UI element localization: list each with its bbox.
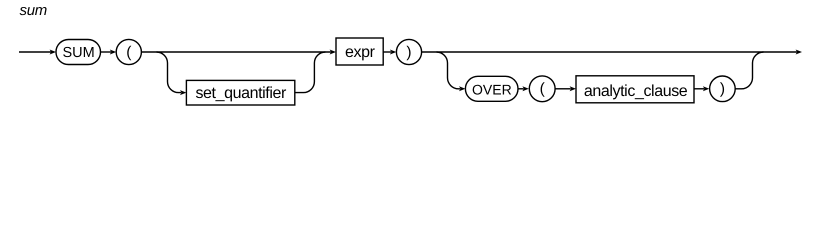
terminal ) 2 bbox=[710, 76, 736, 102]
svg-text:): ) bbox=[406, 44, 411, 61]
wire ( to analytic_clause bbox=[555, 88, 571, 90]
svg-text:(: ( bbox=[126, 44, 132, 61]
non-terminal set_quantifier bbox=[186, 80, 294, 105]
arrowhead into ( 2 bbox=[522, 86, 528, 91]
arrowhead into ) bbox=[390, 50, 396, 55]
arrowhead into ( bbox=[110, 50, 116, 55]
arrowhead end of rail bbox=[796, 50, 802, 55]
svg-text:analytic_clause: analytic_clause bbox=[584, 83, 688, 100]
wire ) exit up to rail bbox=[735, 52, 763, 89]
wire SUM to ( bbox=[101, 51, 112, 53]
svg-text:set_quantifier: set_quantifier bbox=[195, 85, 287, 102]
wire branch down to set_quantifier bbox=[157, 52, 182, 93]
terminal ) bbox=[396, 39, 421, 64]
arrowhead into set_quantifier bbox=[180, 90, 186, 95]
arrowhead into OVER bbox=[459, 86, 465, 91]
svg-text:OVER: OVER bbox=[472, 81, 512, 97]
arrowhead into SUM bbox=[50, 50, 56, 55]
svg-text:sum: sum bbox=[20, 2, 47, 19]
wire analytic_clause to ) bbox=[694, 88, 704, 90]
wire start rail bbox=[19, 51, 51, 53]
svg-text:SUM: SUM bbox=[62, 45, 94, 61]
svg-text:): ) bbox=[720, 81, 725, 98]
wire branch down to OVER bbox=[437, 52, 461, 89]
terminal ( bbox=[116, 39, 141, 64]
wire main rail ( to expr bbox=[141, 51, 331, 53]
terminal OVER bbox=[465, 76, 518, 101]
terminal ( 2 bbox=[529, 76, 555, 102]
wire OVER to ( bbox=[518, 88, 524, 90]
svg-text:expr: expr bbox=[345, 44, 376, 61]
svg-text:(: ( bbox=[540, 81, 546, 98]
non-terminal expr bbox=[336, 38, 383, 65]
wire main rail ) to end bbox=[422, 51, 797, 53]
arrowhead into ) 2 bbox=[703, 86, 709, 91]
arrowhead into expr bbox=[330, 50, 336, 55]
wire set_quantifier exit up to rail bbox=[295, 52, 326, 93]
arrowhead into analytic_clause bbox=[570, 86, 576, 91]
wire expr to ) bbox=[383, 51, 391, 53]
terminal SUM bbox=[56, 40, 101, 65]
non-terminal analytic_clause bbox=[576, 76, 694, 103]
